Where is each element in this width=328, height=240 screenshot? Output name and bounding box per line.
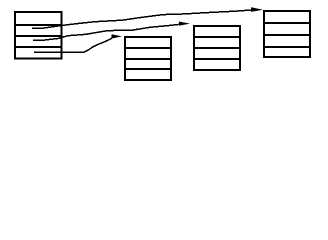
table T3 (middle, 4 rows) [193, 26, 241, 70]
wire: arrow A3 from T1 row4 curving up to table T2 [34, 38, 112, 52]
wire: arrow A1 from T1 row2 to table T4 [32, 10, 253, 29]
table T1 (left, 4 rows) [14, 12, 62, 59]
arrowhead of A3 at table T2 [112, 34, 123, 38]
table T2 (bottom middle, 4 rows) [124, 37, 172, 80]
table T4 (right, 4 rows) [263, 11, 311, 57]
arrowhead of A2 at table T3 [179, 22, 190, 26]
arrowhead of A1 at table T4 [251, 7, 263, 12]
wire: arrow A2 from T1 row3 to table T3 [33, 24, 180, 40]
